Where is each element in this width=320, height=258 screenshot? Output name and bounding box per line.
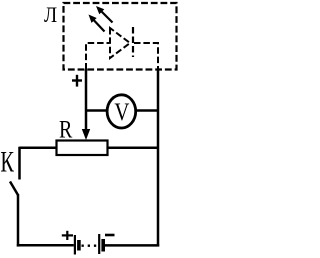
svg-text:V: V <box>114 98 129 125</box>
svg-text:Л: Л <box>44 2 57 28</box>
svg-text:R: R <box>59 115 73 143</box>
svg-text:К: К <box>0 147 14 178</box>
